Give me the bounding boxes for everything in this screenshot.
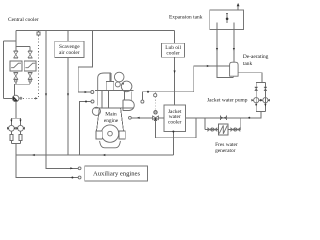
svg-text:tank: tank (243, 61, 253, 67)
strainer S1 (10, 131, 13, 140)
wire: cooler bypass (valve bottom, around) (156, 118, 197, 138)
wire: sea suction horizontal (4, 40, 16, 42)
motor valve on main line (220, 116, 226, 120)
temperature sensor on outlet line (154, 92, 156, 94)
arrow down on drop2 (67, 94, 69, 97)
engine: deck line (95, 90, 134, 92)
central cooler branch 1: stem (15, 47, 17, 52)
node: gray dot (19, 97, 22, 100)
expansion pipe 1 (inside tank down) (216, 23, 218, 66)
engine: aft upper rect (123, 92, 125, 101)
control line (dotted) pump to vent line (23, 97, 35, 99)
svg-text:air cooler: air cooler (59, 50, 80, 56)
node: engine connection circle 1 (91, 91, 94, 94)
loop valve C (231, 128, 235, 131)
level indicator (226, 13, 229, 23)
valve (branch2 bottom) (28, 73, 32, 80)
wire: manifold to HT main line (185, 111, 260, 117)
engine: aft round housing (123, 100, 134, 111)
arrow down (right branch) (19, 120, 21, 122)
wire: jacket cooler bottom drop to return (172, 132, 174, 156)
wire: sea suction vertical (3, 41, 5, 98)
engine: small circle (115, 82, 120, 87)
jacket water pump 2 (261, 98, 270, 103)
wire: engine outlet to de-aerating tank (142, 66, 229, 92)
node: aux inlet circle 2 (78, 176, 81, 179)
wire: discharge manifold (256, 110, 265, 112)
wire: branch bottom manifold (15, 83, 31, 85)
loop line right (228, 129, 241, 131)
suction valve 2 (264, 87, 267, 91)
svg-text:cooler: cooler (168, 119, 182, 125)
central cooler branch 2: stem (29, 47, 31, 52)
arrow right on engine stub1 (85, 91, 88, 93)
node: dot on aux supply (71, 177, 73, 179)
arrow left on return (x=34) (32, 154, 35, 156)
strainer S2 (19, 131, 22, 140)
loop right riser (240, 118, 242, 130)
wire: left pump branch down (10, 118, 12, 125)
node: aux inlet circle 1 (78, 167, 81, 170)
wire: left riser of central cooler group (15, 31, 17, 47)
wire: suction drop 1 (255, 82, 257, 87)
engine: taper right (121, 108, 124, 131)
node: dot on outlet line (147, 91, 149, 93)
wire: manifold down to sea pump (14, 84, 16, 95)
valve (branch1 top) (14, 51, 18, 58)
arrow down below lub cooler (174, 71, 176, 74)
jacket water pump 1 (251, 98, 261, 103)
engine: flywheel (101, 125, 118, 142)
wire: suction manifold (256, 81, 265, 83)
arrow left on return (x=114) (102, 154, 105, 156)
engine: right foot (119, 131, 125, 139)
wire: engine lower stub (79, 102, 91, 156)
wire: suction drop 2 (264, 82, 266, 87)
wire: rejoin header (10, 141, 12, 144)
svg-text:Scavenge: Scavenge (59, 44, 80, 50)
engine: second deck (95, 107, 135, 109)
arrow right on aux stub1 (70, 167, 73, 169)
svg-text:Jacket water pump: Jacket water pump (207, 98, 248, 104)
wire: LT drop 1 (x=46) (45, 31, 47, 155)
node: engine inlet circle (129, 116, 132, 119)
wire: valve2 to pump2 (264, 91, 266, 98)
jacket water cooler box (164, 105, 185, 132)
engine: turbocharger circle A (114, 72, 124, 82)
flow marker on pipe2 (233, 48, 235, 51)
wire: branch top manifold (16, 46, 30, 48)
wire: lub oil cooler outlet down to jacket cooler (174, 57, 176, 105)
sea water pump (3-way) (13, 95, 19, 101)
wire: split header (11, 117, 20, 119)
wire: engine supply drop (x=92.5) (78, 31, 92, 92)
node: branch2 drain circle (29, 80, 31, 82)
wire: de-aerating tank outlet to pump suction (238, 73, 262, 83)
loop valve D (236, 128, 240, 131)
auxiliary engines box (85, 166, 148, 181)
pump P2 (circle) (16, 125, 25, 131)
wire: right pump branch down (20, 118, 22, 125)
vent pipe with arrow (237, 3, 240, 10)
wire: engine outlet stub down to circle (141, 92, 143, 100)
wire: LT return line (16, 154, 174, 156)
engine: left foot (96, 131, 102, 139)
scavenge air cooler box (55, 41, 84, 57)
fresh water generator box (218, 124, 228, 135)
wire: branch1 to bottom manifold (15, 82, 17, 84)
node: dot on main line (248, 117, 250, 119)
wire: LT supply header (16, 30, 175, 32)
svg-text:Central cooler: Central cooler (8, 17, 39, 23)
wire: pump1 discharge (255, 103, 257, 112)
arrow down on drop1 (45, 94, 47, 97)
svg-text:Auxiliary engines: Auxiliary engines (93, 171, 140, 178)
wire: header corner down to lub oil cooler (174, 31, 176, 44)
node: dot at cooler bottom (172, 131, 174, 133)
cooler C1 box (10, 61, 22, 71)
arrow down (left branch) (10, 120, 12, 122)
expansion pipe 2 (233, 23, 235, 63)
arrow left to engine (137, 117, 140, 119)
fresh water generator loop: left drop (204, 118, 206, 130)
wire: valve to jacket cooler (158, 117, 164, 119)
node: dot on lower stub (85, 101, 87, 103)
capillary (dashed) to valve actuator (154, 97, 156, 111)
svg-text:De-aerating: De-aerating (243, 54, 269, 60)
expansion tank (210, 10, 244, 29)
svg-text:Fres water: Fres water (215, 142, 238, 148)
wire: LT drop 2 through scavenge cooler (x=68) (67, 31, 69, 155)
pump P1 (circle) (7, 125, 16, 131)
svg-text:Expansion tank: Expansion tank (169, 15, 203, 21)
engine: columns (97, 91, 99, 106)
wire: valve to engine inlet (131, 117, 152, 119)
control line (dashed) from vent down (38, 35, 40, 98)
arrow right on tank inlet (207, 65, 210, 67)
svg-text:Main: Main (105, 112, 117, 118)
valve (branch1 bottom) (14, 73, 18, 80)
wire: branch2 to bottom manifold (29, 82, 31, 84)
arrow down discharge1 (255, 104, 257, 107)
suction valve 1 (255, 87, 258, 91)
wire: pump2 discharge (264, 103, 266, 112)
lub oil cooler box (162, 43, 185, 57)
node: engine connection circle 2 (91, 100, 94, 103)
cooler C2 box (24, 61, 36, 71)
main engine (92, 72, 134, 148)
svg-text:cooler: cooler (166, 51, 180, 57)
de-aerating tank vessel (230, 62, 239, 76)
svg-text:generator: generator (215, 148, 236, 154)
wire: drop1 to aux engines (46, 155, 78, 168)
engine: twin verticals (108, 73, 110, 81)
vent valve on header (37, 31, 40, 35)
valve (branch2 top) (28, 51, 32, 58)
wire: down to aux supply (16, 144, 78, 178)
flow marker on pipe1 (216, 48, 218, 51)
node: branch1 drain circle (15, 80, 17, 82)
wire: pump down (15, 102, 17, 119)
engine: top-left hump (98, 73, 111, 91)
loop valve A (208, 128, 212, 131)
node: engine outlet circle (141, 100, 144, 103)
engine: small block (106, 82, 114, 91)
wire: sea line into pump (4, 97, 13, 99)
3-way thermostatic valve (153, 111, 159, 121)
engine: bedplate (100, 141, 121, 148)
wire: U line into de-aerating tank bottom (217, 66, 233, 78)
wire: valve1 to pump1 (255, 91, 257, 98)
loop line left (205, 129, 219, 131)
arrow down discharge2 (264, 104, 266, 107)
loop valve B (213, 128, 217, 131)
engine: turbocharger circle B (121, 81, 132, 92)
engine: taper left (97, 108, 100, 131)
engine: front blob (92, 107, 100, 115)
svg-text:engine: engine (104, 118, 119, 124)
